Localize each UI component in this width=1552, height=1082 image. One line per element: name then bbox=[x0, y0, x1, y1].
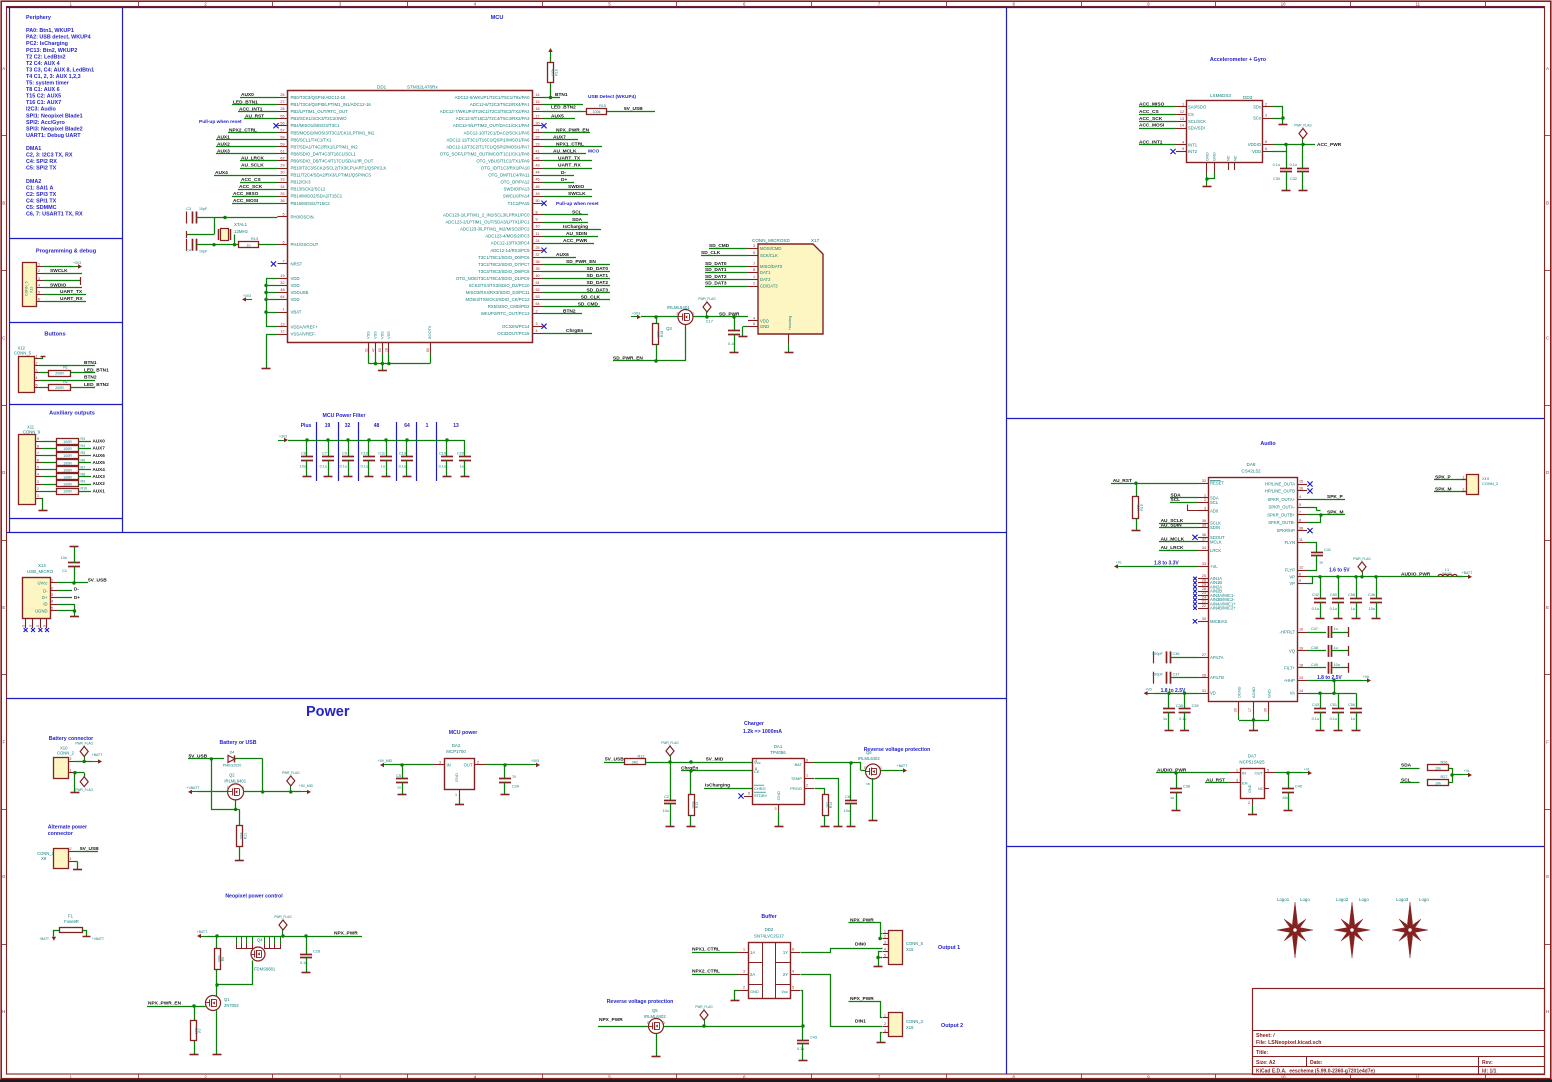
svg-text:5V_MID: 5V_MID bbox=[706, 757, 724, 763]
svg-text:UART1: Debug UART: UART1: Debug UART bbox=[26, 133, 81, 139]
svg-text:3: 3 bbox=[439, 761, 441, 765]
svg-text:+3V3: +3V3 bbox=[632, 312, 640, 316]
svg-text:H: H bbox=[1546, 1009, 1549, 1014]
svg-text:HP/LINE_OUTA: HP/LINE_OUTA bbox=[1265, 482, 1295, 487]
svg-text:PB9/SDIO_D5/T4C4/T17C1/SDA1/IR: PB9/SDIO_D5/T4C4/T17C1/SDA1/IR_OUT bbox=[291, 158, 374, 163]
svg-text:36: 36 bbox=[1202, 533, 1206, 537]
svg-text:100pF: 100pF bbox=[1152, 673, 1163, 677]
svg-text:SD_PWR: SD_PWR bbox=[719, 312, 740, 318]
svg-text:GND: GND bbox=[1267, 689, 1272, 698]
transistor Q4 FDMS6681 body bbox=[251, 938, 276, 972]
svg-text:100R: 100R bbox=[63, 476, 72, 480]
inductor L1 BEAD bbox=[1438, 568, 1457, 577]
svg-text:PH0/OSCIN: PH0/OSCIN bbox=[291, 214, 314, 219]
wire D+ stub bbox=[58, 595, 80, 600]
svg-text:49: 49 bbox=[536, 192, 540, 196]
svg-text:1u: 1u bbox=[1334, 646, 1338, 650]
svg-text:R10: R10 bbox=[81, 487, 88, 491]
svg-text:C6, 7: USART1 TX, RX: C6, 7: USART1 TX, RX bbox=[26, 212, 83, 218]
wire SD_CLK to X17 bbox=[701, 250, 748, 256]
svg-text:NPX_PWR_EN: NPX_PWR_EN bbox=[556, 127, 590, 133]
svg-text:PB13/SCK2/SCL2: PB13/SCK2/SCL2 bbox=[291, 187, 326, 192]
power +5V_MID into DA2 bbox=[378, 759, 434, 767]
svg-text:F: F bbox=[1546, 740, 1549, 745]
svg-text:MOSI/CMD: MOSI/CMD bbox=[760, 246, 781, 251]
wire net AUX1 bbox=[216, 135, 278, 141]
svg-text:10k: 10k bbox=[1435, 781, 1441, 785]
wire NPX2_CTRL to 2A bbox=[692, 969, 738, 975]
svg-text:R2: R2 bbox=[63, 380, 68, 384]
svg-text:3: 3 bbox=[36, 369, 38, 373]
svg-text:100k: 100k bbox=[551, 68, 555, 76]
svg-text:20: 20 bbox=[536, 121, 540, 125]
svg-text:SD_DAT1: SD_DAT1 bbox=[586, 273, 608, 279]
wire net AU_SCLK bbox=[240, 163, 278, 169]
svg-text:UART_TX: UART_TX bbox=[60, 289, 83, 295]
svg-text:31: 31 bbox=[364, 348, 368, 352]
ground above C1 bbox=[70, 546, 79, 548]
svg-text:S: S bbox=[43, 625, 47, 627]
svg-text:1: 1 bbox=[36, 355, 38, 359]
wire AU_SCLK bbox=[1159, 518, 1198, 524]
svg-text:4: 4 bbox=[792, 970, 794, 974]
svg-text:18: 18 bbox=[385, 348, 389, 352]
svg-text:4: 4 bbox=[755, 759, 757, 763]
svg-text:6: 6 bbox=[806, 759, 808, 763]
svg-text:C3: C3 bbox=[186, 207, 191, 211]
ground below TEMP wire bbox=[834, 826, 843, 828]
svg-text:1u: 1u bbox=[1334, 627, 1338, 631]
svg-text:2: 2 bbox=[36, 362, 38, 366]
svg-text:39: 39 bbox=[1264, 708, 1268, 712]
svg-text:C2: C2 bbox=[664, 795, 669, 799]
svg-text:SD_CMD: SD_CMD bbox=[709, 243, 730, 249]
svg-text:CD/DAT3: CD/DAT3 bbox=[760, 284, 778, 289]
svg-text:13: 13 bbox=[453, 423, 459, 429]
svg-text:AUDIO_PWR: AUDIO_PWR bbox=[1401, 571, 1431, 577]
svg-text:0.1u: 0.1u bbox=[439, 465, 446, 469]
svg-text:NPX_PWR: NPX_PWR bbox=[334, 931, 358, 937]
svg-text:51: 51 bbox=[536, 281, 540, 285]
svg-text:VSS: VSS bbox=[373, 331, 378, 339]
svg-text:BAT: BAT bbox=[795, 762, 803, 767]
svg-text:100k: 100k bbox=[593, 110, 601, 114]
svg-text:BTN1: BTN1 bbox=[84, 360, 97, 366]
svg-text:22: 22 bbox=[1202, 604, 1206, 608]
note MCU power header bbox=[449, 730, 478, 736]
svg-text:PB1/T3C4/QSPI0/LPTIM1_IN1/ADC1: PB1/T3C4/QSPI0/LPTIM1_IN1/ADC12-16 bbox=[291, 102, 372, 107]
svg-text:C5: SPI2 TX: C5: SPI2 TX bbox=[26, 166, 57, 172]
ground below battery connector bbox=[70, 792, 79, 794]
svg-text:10: 10 bbox=[536, 225, 540, 229]
svg-text:T8 C1: AUX 6: T8 C1: AUX 6 bbox=[26, 87, 60, 93]
svg-text:PB8/SDIO_D4/T4C3/T16C1/SCL1: PB8/SDIO_D4/T4C3/T16C1/SCL1 bbox=[291, 151, 357, 156]
svg-text:10u: 10u bbox=[844, 809, 850, 813]
svg-text:DGND: DGND bbox=[1237, 686, 1242, 698]
svg-text:34: 34 bbox=[1202, 546, 1206, 550]
svg-text:41: 41 bbox=[536, 150, 540, 154]
ground below alternate connector bbox=[73, 869, 82, 871]
svg-text:2: 2 bbox=[743, 986, 745, 990]
svg-text:S: S bbox=[864, 766, 866, 770]
svg-text:Logo: Logo bbox=[1359, 897, 1369, 902]
svg-text:1u: 1u bbox=[1163, 717, 1167, 721]
wire AD0 stub bbox=[1188, 505, 1199, 511]
svg-text:T2 C4: AUX 4: T2 C4: AUX 4 bbox=[26, 61, 60, 67]
svg-text:OUT: OUT bbox=[1255, 771, 1264, 776]
capacitor C41 1u flying bbox=[1307, 543, 1331, 571]
resistor R13 10 bbox=[239, 237, 278, 247]
svg-text:9: 9 bbox=[37, 437, 39, 441]
svg-text:5: 5 bbox=[1267, 769, 1269, 773]
svg-text:SD_DAT2: SD_DAT2 bbox=[586, 280, 608, 286]
note Battery or USB header bbox=[220, 740, 257, 746]
svg-text:AUX6: AUX6 bbox=[556, 252, 569, 258]
wire VA rail bbox=[1307, 681, 1356, 695]
svg-text:11: 11 bbox=[1299, 538, 1303, 542]
svg-text:9: 9 bbox=[536, 218, 538, 222]
wire ACC_MOSI bbox=[1139, 123, 1176, 129]
svg-text:10k: 10k bbox=[1435, 767, 1441, 771]
svg-text:ACC_MOSI: ACC_MOSI bbox=[233, 198, 259, 204]
svg-text:RESET: RESET bbox=[1210, 481, 1224, 486]
wire SDx SCx to ground bbox=[1273, 107, 1285, 125]
svg-text:Buttons: Buttons bbox=[44, 332, 65, 338]
svg-text:CONN_5: CONN_5 bbox=[14, 351, 32, 356]
svg-text:62: 62 bbox=[280, 157, 284, 161]
filter section divider lines bbox=[317, 422, 437, 481]
svg-text:12: 12 bbox=[1299, 566, 1303, 570]
svg-text:C20: C20 bbox=[457, 452, 464, 456]
svg-text:52: 52 bbox=[536, 288, 540, 292]
svg-text:PA2: USB detect, WKUP4: PA2: USB detect, WKUP4 bbox=[26, 35, 91, 41]
svg-text:1: 1 bbox=[1236, 769, 1238, 773]
svg-text:8: 8 bbox=[753, 268, 755, 272]
wire DA7 GND bbox=[1252, 806, 1254, 814]
resistor R16 100k pull-up BTN1 bbox=[548, 48, 559, 99]
svg-text:C13: C13 bbox=[399, 452, 406, 456]
svg-text:3: 3 bbox=[884, 940, 886, 944]
svg-text:D+: D+ bbox=[42, 595, 48, 600]
svg-text:3: 3 bbox=[37, 480, 39, 484]
svg-text:C35: C35 bbox=[1176, 704, 1183, 708]
no-connect DD1 pin 50 bbox=[541, 201, 599, 207]
wire SPKR_OUTB- stub bbox=[1307, 513, 1323, 522]
svg-text:MCP1700: MCP1700 bbox=[446, 749, 466, 754]
svg-text:3: 3 bbox=[51, 593, 53, 597]
ic DD1 STM32L476Rx body bbox=[288, 85, 533, 343]
note Power section title bbox=[306, 704, 350, 720]
svg-text:OTG_NOE/T3C4/T8C4/SDIO_D1/PC9: OTG_NOE/T3C4/T8C4/SDIO_D1/PC9 bbox=[456, 276, 530, 281]
svg-text:100k: 100k bbox=[240, 832, 244, 840]
title block bbox=[1252, 989, 1545, 1075]
svg-text:C42: C42 bbox=[1312, 593, 1319, 597]
ic DD1 right pin row PC0-PC15 PD2 bbox=[443, 211, 542, 336]
svg-text:X9: X9 bbox=[41, 856, 47, 861]
svg-text:100R: 100R bbox=[63, 483, 72, 487]
wire SDA to DA8 bbox=[1170, 492, 1198, 498]
ground below C43 bbox=[1316, 730, 1325, 732]
svg-text:C49: C49 bbox=[1311, 663, 1318, 667]
svg-text:47: 47 bbox=[371, 348, 375, 352]
svg-text:MISO3/RX4/RX3/SDIO_D3/PC11: MISO3/RX4/RX3/SDIO_D3/PC11 bbox=[466, 290, 530, 295]
svg-text:4: 4 bbox=[753, 317, 755, 321]
svg-text:ACC_INT1: ACC_INT1 bbox=[1139, 140, 1163, 146]
svg-text:Sheet: /: Sheet: / bbox=[1256, 1033, 1275, 1039]
svg-text:33: 33 bbox=[280, 178, 284, 182]
svg-text:36: 36 bbox=[280, 199, 284, 203]
svg-text:C40: C40 bbox=[1295, 785, 1302, 789]
svg-text:X16: X16 bbox=[906, 1025, 914, 1030]
svg-text:ADC123-3/LPTIM1_IN2/MISO2/PC2: ADC123-3/LPTIM1_IN2/MISO2/PC2 bbox=[460, 227, 530, 232]
svg-text:CONN_3: CONN_3 bbox=[906, 1019, 924, 1024]
wire SCL bbox=[543, 210, 589, 216]
svg-text:D-: D- bbox=[43, 589, 48, 594]
svg-text:GND: GND bbox=[1205, 152, 1210, 161]
svg-text:MICBIAS: MICBIAS bbox=[1210, 619, 1227, 624]
note filter column labels bbox=[301, 423, 459, 429]
resistor R14 1k2 PROG bbox=[815, 789, 834, 827]
wire AUX6 bbox=[543, 252, 577, 258]
note Output 2 bbox=[941, 1023, 963, 1029]
svg-text:TP4056: TP4056 bbox=[770, 750, 786, 755]
power +3V3 to Q3 source bbox=[631, 312, 678, 320]
svg-text:E: E bbox=[1546, 605, 1549, 610]
resistor R12 0R2 bbox=[625, 754, 753, 764]
svg-text:PWR_FLAG: PWR_FLAG bbox=[75, 742, 93, 746]
svg-text:T2 C2: LedBtn2: T2 C2: LedBtn2 bbox=[26, 54, 66, 60]
svg-text:2: 2 bbox=[1463, 488, 1465, 492]
svg-text:56: 56 bbox=[280, 121, 284, 125]
svg-text:+BATT: +BATT bbox=[39, 937, 49, 941]
svg-text:38: 38 bbox=[536, 260, 540, 264]
capacitor C58 1u bbox=[1348, 577, 1362, 619]
svg-text:File: LSNeopixel.kicad.sch: File: LSNeopixel.kicad.sch bbox=[1256, 1040, 1321, 1046]
svg-text:+3V3: +3V3 bbox=[73, 261, 81, 265]
svg-text:VB: VB bbox=[866, 782, 870, 786]
svg-text:AFILTB: AFILTB bbox=[1210, 675, 1224, 680]
wire BTN2 bbox=[40, 375, 97, 381]
svg-text:CONN_5: CONN_5 bbox=[906, 941, 924, 946]
svg-text:60: 60 bbox=[426, 348, 430, 352]
svg-text:36: 36 bbox=[1299, 526, 1303, 530]
svg-text:NPX2_CTRL: NPX2_CTRL bbox=[229, 127, 257, 133]
svg-text:C: C bbox=[1546, 335, 1549, 340]
svg-text:1u: 1u bbox=[512, 775, 516, 779]
svg-text:+HHP: +HHP bbox=[1284, 678, 1295, 683]
svg-text:17: 17 bbox=[1248, 708, 1252, 712]
capacitor C28 0.1u bbox=[300, 936, 320, 972]
power +VB battery input bbox=[187, 786, 228, 794]
svg-text:3: 3 bbox=[38, 277, 40, 281]
ground below C56 bbox=[1352, 730, 1361, 732]
no-connect DA8 HP/LINE_OUTB bbox=[1307, 488, 1312, 493]
svg-text:53: 53 bbox=[536, 295, 540, 299]
svg-text:E: E bbox=[2, 605, 5, 610]
svg-text:PA0: Btn1, WKUP1: PA0: Btn1, WKUP1 bbox=[26, 28, 74, 34]
ground below C11 bbox=[382, 476, 391, 478]
ground below VSSA bbox=[262, 368, 271, 370]
svg-text:14: 14 bbox=[1180, 124, 1184, 128]
svg-text:Pull-up when reset: Pull-up when reset bbox=[556, 201, 599, 207]
svg-text:SPKR_OUTB-: SPKR_OUTB- bbox=[1268, 520, 1295, 525]
resistor R1 200R bbox=[40, 365, 109, 376]
svg-text:+BATT: +BATT bbox=[897, 764, 907, 768]
svg-text:ChrgEn: ChrgEn bbox=[566, 328, 583, 334]
svg-text:23: 23 bbox=[536, 142, 540, 146]
svg-text:SPI2: Acc/Gyro: SPI2: Acc/Gyro bbox=[26, 120, 65, 126]
svg-text:5: 5 bbox=[884, 953, 886, 957]
svg-text:AIN4B/MIC2+: AIN4B/MIC2+ bbox=[1210, 606, 1236, 611]
wire NPX1_CTRL bbox=[543, 142, 603, 148]
ic DD3 LSM6DS3 bbox=[1176, 93, 1273, 173]
svg-text:VDDIO: VDDIO bbox=[1248, 142, 1262, 147]
svg-text:15: 15 bbox=[536, 100, 540, 104]
svg-text:14: 14 bbox=[536, 93, 540, 97]
svg-text:S: S bbox=[647, 1021, 649, 1025]
svg-text:SD_PWR_EN: SD_PWR_EN bbox=[613, 356, 643, 362]
svg-text:2: 2 bbox=[70, 757, 72, 761]
svg-text:R26: R26 bbox=[1441, 760, 1448, 764]
fuse F1 Fuse6R bbox=[54, 914, 87, 937]
svg-text:+5V_MID: +5V_MID bbox=[378, 759, 393, 763]
svg-text:1A: 1A bbox=[750, 950, 755, 955]
wire BTN1 bbox=[543, 92, 568, 98]
svg-text:Date:: Date: bbox=[1310, 1060, 1323, 1066]
capacitor C38 1u bbox=[1170, 773, 1190, 810]
svg-text:R5: R5 bbox=[81, 451, 86, 455]
svg-text:63: 63 bbox=[378, 348, 382, 352]
svg-text:SCx: SCx bbox=[1253, 116, 1262, 121]
svg-text:C19: C19 bbox=[439, 452, 446, 456]
svg-text:R9: R9 bbox=[81, 480, 86, 484]
svg-text:C5: C5 bbox=[396, 774, 401, 778]
ground below R11 bbox=[235, 860, 244, 862]
svg-text:22: 22 bbox=[536, 135, 540, 139]
svg-text:1: 1 bbox=[1204, 494, 1206, 498]
svg-text:PB0/T3C3/QSPI4/ADC12-18: PB0/T3C3/QSPI4/ADC12-18 bbox=[291, 95, 347, 100]
svg-text:NPX_PWR_EN: NPX_PWR_EN bbox=[148, 1001, 182, 1007]
svg-text:PB12/CK3: PB12/CK3 bbox=[291, 180, 312, 185]
note Battery connector header bbox=[49, 736, 93, 742]
svg-text:NC: NC bbox=[1233, 155, 1238, 161]
svg-text:VBAT: VBAT bbox=[291, 310, 302, 315]
resistor R11 100k bbox=[237, 826, 248, 861]
svg-text:DA8: DA8 bbox=[1247, 462, 1256, 467]
svg-text:EN: EN bbox=[1242, 781, 1248, 786]
svg-text:3: 3 bbox=[884, 1029, 886, 1033]
svg-text:T3 C3, C4: AUX 8, LedBtn1: T3 C3, C4: AUX 8, LedBtn1 bbox=[26, 67, 94, 73]
svg-text:3: 3 bbox=[774, 807, 776, 811]
connector X13 CONN_6 bbox=[23, 262, 44, 306]
svg-text:44: 44 bbox=[536, 171, 540, 175]
power flag PWR_FLAG on battery - bbox=[75, 773, 93, 792]
svg-text:VDDA/VREF+: VDDA/VREF+ bbox=[291, 325, 319, 330]
svg-text:Logo: Logo bbox=[1419, 897, 1429, 902]
svg-text:GND: GND bbox=[760, 324, 769, 329]
capacitor C39 0.1u bbox=[1179, 693, 1199, 731]
svg-text:Buffer: Buffer bbox=[761, 914, 776, 920]
svg-text:SPKR/HP: SPKR/HP bbox=[1277, 528, 1296, 533]
svg-text:10: 10 bbox=[1281, 2, 1286, 7]
capacitor C47 1u bbox=[1307, 626, 1349, 638]
svg-text:OTG_SOF/LPTIM2_OUT/MCO/T1C1/CK: OTG_SOF/LPTIM2_OUT/MCO/T1C1/CK1/PA8 bbox=[440, 151, 530, 156]
svg-text:5V_USB: 5V_USB bbox=[624, 106, 643, 112]
no-connect DA8 SPKR/HP bbox=[1307, 528, 1312, 533]
svg-text:26: 26 bbox=[280, 93, 284, 97]
capacitor C10 0.1u bbox=[361, 438, 375, 477]
svg-text:DD2: DD2 bbox=[765, 927, 774, 932]
wire net AUX0 bbox=[240, 92, 278, 98]
svg-text:AU_LRCK: AU_LRCK bbox=[241, 156, 264, 162]
wire BAT to battery node bbox=[814, 761, 861, 764]
ic DA7 NCP51SN25 regulator bbox=[1230, 754, 1275, 807]
svg-text:1: 1 bbox=[455, 793, 457, 797]
svg-text:0.1u: 0.1u bbox=[1330, 717, 1337, 721]
ground below C32 bbox=[1299, 190, 1308, 192]
svg-text:1: 1 bbox=[70, 768, 72, 772]
svg-text:1: 1 bbox=[743, 948, 745, 952]
svg-text:2A: 2A bbox=[750, 972, 755, 977]
svg-text:PWR_FLAG: PWR_FLAG bbox=[1353, 557, 1371, 561]
wire Q2 gate loop bbox=[212, 759, 240, 826]
svg-text:C2, 3: I2C3 TX, RX: C2, 3: I2C3 TX, RX bbox=[26, 153, 73, 159]
svg-text:ADC12-5/WKUP1/T2C1/T5C1/T8x/PA: ADC12-5/WKUP1/T2C1/T5C1/T8x/PA0 bbox=[455, 95, 531, 100]
wire DD3 GND pins to ground bbox=[1205, 173, 1214, 187]
wire D+ bbox=[543, 177, 575, 183]
svg-text:0.1u: 0.1u bbox=[1330, 607, 1337, 611]
ground below C30 bbox=[1282, 190, 1291, 192]
svg-text:+VL: +VL bbox=[1116, 561, 1122, 565]
svg-text:UVcc: UVcc bbox=[37, 581, 47, 586]
svg-text:ADC12-8/T15C2/T2C4/T5C4/RX2/PA: ADC12-8/T15C2/T2C4/T5C4/RX2/PA3 bbox=[456, 116, 530, 121]
svg-text:GND: GND bbox=[776, 791, 781, 800]
note MCU Power Filter header bbox=[323, 413, 366, 419]
svg-text:DA7: DA7 bbox=[1248, 754, 1257, 759]
svg-text:Reverse voltage protection: Reverse voltage protection bbox=[864, 747, 931, 753]
wire AU_RST to RESET bbox=[1111, 478, 1198, 485]
note Reverse voltage protection header 2 bbox=[607, 999, 674, 1005]
svg-text:T4 C1, 2, 3: AUX 1,2,3: T4 C1, 2, 3: AUX 1,2,3 bbox=[26, 74, 81, 80]
note Alternate power connector header bbox=[48, 825, 87, 838]
svg-text:+BATT: +BATT bbox=[92, 753, 102, 757]
wire BTN1 bbox=[40, 360, 97, 366]
svg-text:USB_MICRO: USB_MICRO bbox=[27, 569, 54, 574]
svg-text:0.1u: 0.1u bbox=[1290, 163, 1297, 167]
svg-text:S: S bbox=[29, 625, 33, 627]
svg-text:5: 5 bbox=[37, 466, 39, 470]
wire SCL pullup bbox=[1400, 777, 1420, 783]
svg-text:T16 C1: AUX7: T16 C1: AUX7 bbox=[26, 100, 61, 106]
svg-text:C56: C56 bbox=[1348, 703, 1355, 707]
svg-text:R27: R27 bbox=[1441, 775, 1448, 779]
svg-text:LED_BTN1: LED_BTN1 bbox=[233, 99, 258, 105]
svg-text:6: 6 bbox=[1265, 147, 1267, 151]
no-connect DD3 INT2 bbox=[1170, 149, 1175, 154]
svg-text:+5V_MID: +5V_MID bbox=[299, 784, 314, 788]
wire X16 ground pin bbox=[881, 1033, 883, 1043]
svg-text:MISO/DAT0: MISO/DAT0 bbox=[760, 264, 783, 269]
svg-text:R6: R6 bbox=[81, 458, 86, 462]
svg-text:I2C3: Audio: I2C3: Audio bbox=[26, 107, 56, 113]
svg-text:ACC_PWR: ACC_PWR bbox=[563, 238, 588, 244]
svg-text:Id: 1/1: Id: 1/1 bbox=[1482, 1069, 1497, 1075]
svg-text:Q3: Q3 bbox=[666, 326, 672, 331]
wire UART_RX bbox=[43, 296, 86, 302]
svg-text:VP: VP bbox=[1289, 581, 1295, 586]
svg-text:ADC12-6/T2C2/T5C2/RX4/PA1: ADC12-6/T2C2/T5C2/RX4/PA1 bbox=[470, 102, 530, 107]
svg-text:S: S bbox=[36, 625, 40, 627]
